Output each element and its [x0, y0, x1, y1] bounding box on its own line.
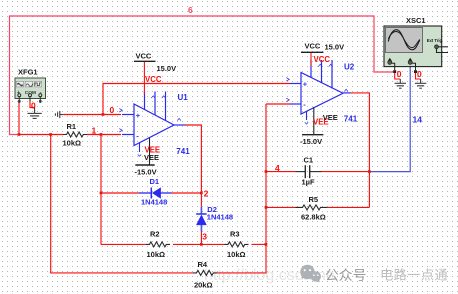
diode D2 — [196, 205, 233, 232]
svg-text:电路一点通: 电路一点通 — [380, 268, 448, 283]
svg-text:6: 6 — [188, 5, 193, 15]
diode D1 — [139, 177, 172, 207]
input pin stubs — [122, 114, 134, 116]
svg-text:+: + — [136, 111, 141, 120]
svg-text:3: 3 — [202, 231, 207, 241]
svg-text:COM: COM — [25, 90, 36, 96]
ground under scope A — [395, 79, 406, 88]
wire net6 top/left (pink) — [10, 16, 395, 135]
watermark wechat icon — [300, 265, 321, 283]
svg-text:0: 0 — [417, 69, 422, 79]
wire D1 row right — [172, 192, 202, 194]
wire bottom loop R4 row — [51, 135, 193, 273]
svg-text:VEE: VEE — [144, 153, 159, 162]
wire left mid vertical — [100, 135, 102, 245]
svg-text:1N4148: 1N4148 — [207, 213, 233, 222]
ground below XFG1 — [28, 108, 42, 119]
terminal B — [408, 58, 412, 61]
svg-text:741: 741 — [176, 147, 190, 156]
svg-text:15.0V: 15.0V — [325, 43, 345, 52]
svg-text:741: 741 — [344, 114, 358, 123]
wire scope A hook — [395, 73, 401, 79]
svg-text:Ext Trig: Ext Trig — [427, 38, 443, 43]
svg-text:VCC: VCC — [305, 42, 321, 51]
svg-text:VCC: VCC — [145, 75, 162, 84]
wire scope B blue — [369, 64, 410, 172]
svg-text:R3: R3 — [230, 230, 240, 239]
svg-text:R5: R5 — [309, 195, 319, 204]
svg-text:U1: U1 — [178, 93, 189, 102]
wire D1 row left — [101, 192, 139, 194]
op-amp U2 — [286, 60, 350, 124]
VEE power U1 — [135, 138, 157, 177]
svg-text:-15.0V: -15.0V — [135, 168, 157, 177]
oscilloscope XSC1 — [384, 16, 448, 73]
function generator XFG1 — [15, 78, 46, 103]
svg-text:0: 0 — [31, 101, 36, 111]
svg-text:1N4148: 1N4148 — [141, 198, 167, 207]
svg-text:1µF: 1µF — [302, 178, 315, 187]
VEE power U2 — [300, 107, 323, 146]
svg-text:R1: R1 — [67, 122, 77, 131]
svg-text:R4: R4 — [198, 260, 208, 269]
svg-text:VCC: VCC — [314, 55, 331, 64]
bottom small pin — [139, 143, 141, 152]
wire scope B hook — [416, 73, 421, 79]
svg-text:4: 4 — [275, 163, 280, 173]
wire XFG1 com to ground — [30, 97, 35, 108]
svg-text:15.0V: 15.0V — [157, 64, 177, 73]
svg-text:10kΩ: 10kΩ — [147, 250, 166, 259]
rotated ground at U1 plus input — [55, 111, 63, 118]
resistor R3 — [225, 230, 249, 260]
svg-text:XSC1: XSC1 — [406, 16, 426, 25]
svg-text:C1: C1 — [304, 156, 314, 165]
svg-text:10kΩ: 10kΩ — [227, 250, 246, 259]
resistor R2 — [146, 230, 170, 260]
wire U1 output down — [185, 125, 201, 193]
svg-text:R2: R2 — [150, 230, 160, 239]
wire R1 row — [19, 134, 63, 136]
ground under scope B — [415, 79, 426, 88]
resistor R4 — [193, 260, 217, 290]
wire U2 minus input — [266, 103, 290, 105]
svg-text:公众号: 公众号 — [325, 268, 366, 283]
top pins — [144, 92, 146, 110]
VCC power U1 — [134, 52, 176, 95]
svg-text:+: + — [303, 80, 308, 89]
svg-text:XFG1: XFG1 — [18, 68, 38, 77]
wire D2 column — [200, 193, 202, 207]
svg-text:-15.0V: -15.0V — [300, 137, 322, 146]
svg-text:10kΩ: 10kΩ — [63, 139, 82, 148]
resistor R5 — [296, 195, 328, 222]
wire XFG1 plus stem — [18, 101, 20, 135]
wire U1plus to U2plus long — [103, 84, 290, 115]
svg-text:0: 0 — [397, 69, 402, 79]
svg-text:D1: D1 — [150, 177, 160, 186]
wire R5 row — [266, 206, 299, 208]
svg-text:62.8kΩ: 62.8kΩ — [301, 213, 326, 222]
svg-text:20kΩ: 20kΩ — [194, 281, 213, 290]
svg-text:VCC: VCC — [136, 52, 152, 61]
wire C1 row — [266, 171, 296, 173]
svg-text:0: 0 — [110, 105, 115, 115]
output stub — [174, 124, 185, 126]
op-amp U1 — [119, 92, 185, 157]
svg-text:2: 2 — [204, 189, 209, 199]
svg-text:14: 14 — [413, 115, 423, 125]
capacitor C1 — [296, 156, 322, 187]
wire mid right vertical — [265, 104, 267, 244]
VCC power U2 — [301, 42, 344, 67]
resistor R1 — [63, 122, 88, 148]
terminal A — [388, 58, 392, 61]
wire R2R3 row — [101, 243, 146, 245]
wire U2 output down right — [350, 93, 369, 207]
svg-text:VEE: VEE — [323, 113, 338, 122]
svg-text:U2: U2 — [344, 63, 355, 72]
wire U1 plus input from ground — [63, 114, 121, 116]
svg-text:1: 1 — [92, 126, 97, 136]
